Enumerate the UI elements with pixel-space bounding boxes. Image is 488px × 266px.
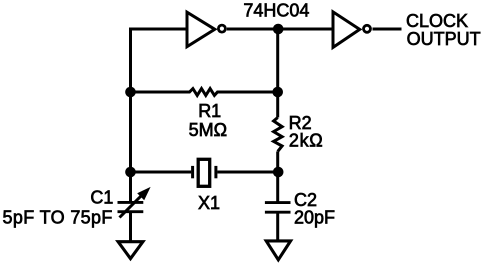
svg-text:20pF: 20pF (294, 208, 335, 228)
svg-text:OUTPUT: OUTPUT (407, 29, 481, 49)
svg-text:74HC04: 74HC04 (243, 1, 309, 21)
svg-text:5pF TO 75pF: 5pF TO 75pF (3, 207, 113, 227)
svg-text:X1: X1 (198, 193, 220, 213)
svg-text:R1: R1 (198, 101, 221, 121)
svg-text:C1: C1 (90, 188, 113, 208)
svg-text:2kΩ: 2kΩ (289, 131, 324, 151)
svg-text:5MΩ: 5MΩ (189, 120, 227, 140)
